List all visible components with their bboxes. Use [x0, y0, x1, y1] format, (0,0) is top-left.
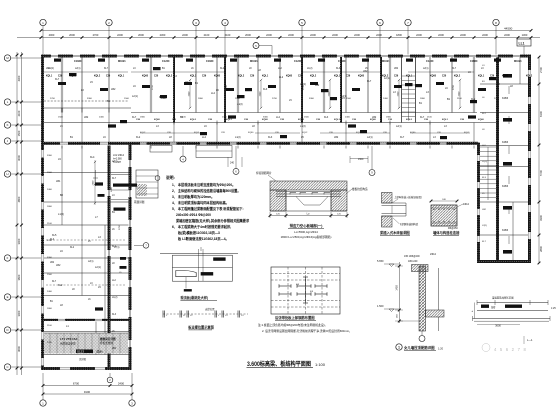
svg-text:1800: 1800: [47, 308, 53, 310]
svg-text:折板式楼梯: 折板式楼梯: [100, 341, 113, 345]
svg-text:KQ60: KQ60: [248, 132, 254, 134]
svg-text:44500: 44500: [504, 27, 513, 31]
svg-text:KQ60: KQ60: [358, 76, 365, 78]
svg-text:KQ60: KQ60: [478, 119, 484, 121]
svg-text:KQ60: KQ60: [70, 76, 77, 78]
svg-text:2400: 2400: [47, 189, 53, 191]
svg-text:2200: 2200: [416, 33, 422, 37]
svg-text:195 1Φ6@200: 195 1Φ6@200: [404, 255, 420, 258]
svg-text:1500: 1500: [47, 274, 53, 276]
svg-text:KQL2: KQL2: [382, 76, 389, 78]
svg-text:4Φ12: 4Φ12: [463, 203, 470, 206]
svg-text:240x300 4Φ14 Φ6@200: 240x300 4Φ14 Φ6@200: [176, 213, 211, 217]
svg-text:1500: 1500: [47, 172, 53, 174]
svg-text:C20: C20: [298, 76, 303, 78]
svg-text:1500: 1500: [58, 117, 64, 119]
svg-text:L2(1): L2(1): [112, 161, 118, 163]
svg-text:3.600标高梁、板结构平面图: 3.600标高梁、板结构平面图: [247, 360, 311, 368]
svg-text:LL2: LL2: [279, 76, 284, 79]
svg-text:2400: 2400: [118, 382, 125, 386]
svg-text:1500: 1500: [304, 117, 310, 119]
svg-text:1:100: 1:100: [315, 362, 326, 367]
svg-text:2700: 2700: [93, 33, 99, 37]
svg-text:KQL1: KQL1: [442, 119, 449, 121]
svg-text:3300: 3300: [309, 98, 315, 100]
svg-text:LB2: LB2: [46, 68, 51, 70]
svg-text:2700: 2700: [539, 67, 543, 73]
svg-text:焊接钢筋网片: 焊接钢筋网片: [256, 171, 272, 175]
svg-text:2200: 2200: [460, 33, 466, 37]
svg-text:5700: 5700: [539, 170, 543, 176]
svg-text:M1021: M1021: [118, 60, 126, 63]
svg-text:KQL1: KQL1: [356, 132, 362, 134]
svg-text:2200: 2200: [354, 33, 360, 37]
svg-text:2100: 2100: [47, 223, 53, 225]
svg-text:KQ60: KQ60: [214, 76, 221, 78]
svg-text:2. 后浇带两侧设钢丝网隔断,砼浇筑前清理干净,浇筑60天后: 2. 后浇带两侧设钢丝网隔断,砼浇筑前清理干净,浇筑60天后封闭600mm。: [262, 329, 352, 333]
svg-text:D: D: [6, 328, 8, 332]
svg-text:C: C: [6, 365, 8, 369]
svg-text:2700: 2700: [50, 98, 56, 100]
svg-text:L1(2): L1(2): [58, 213, 64, 216]
svg-text:3300: 3300: [263, 117, 269, 119]
svg-text:2700: 2700: [453, 84, 455, 90]
svg-text:KQL1: KQL1: [262, 76, 269, 78]
svg-text:6700: 6700: [73, 382, 80, 386]
svg-text:C26: C26: [58, 76, 63, 78]
svg-text:L2(1): L2(1): [423, 68, 429, 70]
svg-text:梁端加密区箍筋(见大样),其余部分参照相关图集要求: 梁端加密区箍筋(见大样),其余部分参照相关图集要求: [175, 218, 250, 223]
svg-text:1、 本层现浇板未注明支座筋均为Φ8@200。: 1、 本层现浇板未注明支座筋均为Φ8@200。: [172, 182, 235, 187]
svg-text:3000: 3000: [17, 310, 21, 316]
svg-text:KQ60: KQ60: [286, 76, 293, 78]
svg-text:2100: 2100: [17, 110, 21, 116]
svg-text:1580: 1580: [111, 186, 113, 192]
svg-text:6、 本工程梁跨大于4m时按规范要求起拱,: 6、 本工程梁跨大于4m时按规范要求起拱,: [172, 224, 231, 229]
svg-text:1:20: 1:20: [438, 347, 444, 351]
svg-text:KL7: KL7: [52, 281, 57, 283]
svg-text:KQL1: KQL1: [46, 76, 53, 78]
svg-text:说明:: 说明:: [166, 175, 175, 180]
svg-text:上部纵筋锚入板端加强(见): 上部纵筋锚入板端加强(见): [394, 195, 422, 199]
svg-text:1:25: 1:25: [551, 307, 556, 310]
svg-text:预应力空心板端部(一): 预应力空心板端部(一): [290, 223, 323, 228]
svg-text:3600: 3600: [17, 346, 21, 352]
svg-text:注:1.板面上部负筋均按Φ8@200布置(未注明者按此设)。: 注:1.板面上部负筋均按Φ8@200布置(未注明者按此设)。: [258, 323, 327, 327]
svg-text:LB2: LB2: [363, 70, 368, 73]
svg-text:4、 未注明梁顶标高均同本层结构标高。: 4、 未注明梁顶标高均同本层结构标高。: [172, 200, 229, 205]
svg-text:H: H: [6, 172, 8, 176]
svg-text:KL2: KL2: [112, 246, 117, 248]
svg-text:KQL2: KQL2: [406, 119, 413, 121]
svg-text:L—1: L—1: [527, 338, 533, 342]
svg-text:3300: 3300: [47, 257, 53, 259]
svg-text:3300: 3300: [539, 215, 543, 221]
svg-text:1800: 1800: [140, 117, 146, 119]
svg-text:KQ60: KQ60: [262, 119, 268, 121]
svg-text:2Φ12: 2Φ12: [430, 253, 437, 256]
svg-text:S123: S123: [77, 350, 84, 354]
svg-text:L2(1): L2(1): [88, 261, 94, 263]
svg-text:2400: 2400: [383, 98, 389, 100]
svg-text:K2B3: K2B3: [502, 185, 509, 188]
svg-text:2200: 2200: [310, 33, 316, 37]
svg-text:3600: 3600: [495, 324, 501, 328]
svg-text:LB2: LB2: [56, 264, 61, 267]
svg-text:2400: 2400: [345, 117, 351, 119]
svg-text:2100: 2100: [427, 117, 433, 119]
svg-text:2400: 2400: [161, 98, 167, 100]
svg-text:板 L1断面做法按11G302,18页—4。: 板 L1断面做法按11G302,18页—4。: [178, 236, 229, 241]
svg-text:LB2: LB2: [111, 88, 116, 91]
svg-text:C1220: C1220: [162, 60, 170, 63]
svg-text:C1820: C1820: [470, 60, 478, 63]
svg-text:KQL1: KQL1: [478, 76, 485, 78]
svg-text:2100: 2100: [457, 98, 463, 100]
svg-text:KQL1: KQL1: [226, 119, 233, 121]
svg-text:1800: 1800: [420, 98, 426, 100]
svg-text:Φ6@250: Φ6@250: [448, 227, 458, 230]
svg-text:L1(2): L1(2): [307, 68, 313, 70]
svg-text:KQ60: KQ60: [154, 119, 160, 121]
svg-text:2200: 2200: [504, 33, 510, 37]
svg-text:M1021: M1021: [514, 60, 522, 63]
svg-text:L1(2): L1(2): [237, 103, 243, 106]
svg-text:KL5: KL5: [52, 234, 57, 237]
svg-text:LB1: LB1: [56, 180, 61, 183]
svg-text:M1021: M1021: [382, 60, 390, 63]
svg-text:Lo=5500,Ag=2Φ14: Lo=5500,Ag=2Φ14: [294, 230, 318, 234]
svg-text:C26: C26: [394, 76, 399, 78]
svg-text:C20: C20: [154, 76, 159, 78]
svg-text:KL2: KL2: [70, 247, 75, 249]
svg-text:2000: 2000: [245, 33, 251, 37]
svg-text:2200: 2200: [182, 33, 188, 37]
svg-text:1800: 1800: [396, 33, 402, 37]
svg-text:C20: C20: [442, 76, 447, 78]
svg-text:6100: 6100: [539, 111, 543, 117]
svg-text:KQ60: KQ60: [370, 119, 376, 121]
svg-text:KL3: KL3: [268, 136, 273, 139]
svg-text:KQ60: KQ60: [430, 76, 437, 78]
svg-text:L1(2): L1(2): [482, 161, 487, 163]
svg-text:KQL1: KQL1: [334, 76, 341, 78]
svg-text:KL7: KL7: [104, 68, 109, 70]
svg-text:C1220: C1220: [426, 60, 434, 63]
svg-text:LT1 2T6.15A: LT1 2T6.15A: [60, 337, 78, 341]
svg-text:1300: 1300: [522, 33, 528, 37]
svg-text:M1021: M1021: [250, 60, 258, 63]
svg-text:KQL1: KQL1: [190, 76, 197, 78]
svg-text:L2(1): L2(1): [75, 68, 81, 70]
svg-text:KL7: KL7: [367, 80, 372, 83]
svg-text:L2(1): L2(1): [482, 225, 487, 227]
svg-text:C26: C26: [346, 76, 351, 78]
svg-text:C1820: C1820: [338, 60, 346, 63]
svg-text:KQL1: KQL1: [334, 119, 341, 121]
svg-text:240: 240: [230, 162, 235, 165]
svg-text:2700: 2700: [272, 98, 278, 100]
svg-text:2100: 2100: [204, 33, 210, 37]
svg-text:KQL1: KQL1: [406, 76, 413, 78]
svg-text:L1(2): L1(2): [235, 136, 241, 139]
svg-text:KL3: KL3: [324, 116, 329, 119]
svg-text:1800: 1800: [386, 117, 392, 119]
svg-text:L1(2): L1(2): [300, 125, 306, 128]
svg-text:KQ60: KQ60: [410, 132, 416, 134]
svg-text:KL7: KL7: [112, 178, 117, 180]
svg-text:5、 本工程雨篷过梁断面配置见下表 卧梁配筋如下:: 5、 本工程雨篷过梁断面配置见下表 卧梁配筋如下:: [172, 206, 244, 211]
svg-text:L2(1): L2(1): [396, 125, 402, 128]
svg-text:下部钢筋锚固构造: 下部钢筋锚固构造: [399, 222, 419, 226]
svg-text:2100: 2100: [181, 117, 187, 119]
svg-text:支撑位置: 支撑位置: [205, 307, 215, 311]
svg-text:1500: 1500: [17, 130, 21, 136]
svg-text:C26: C26: [250, 76, 255, 78]
svg-text:1800<Lo<2500,Ag=2Φ16(Ag指端部钢筋): 1800<Lo<2500,Ag=2Φ16(Ag指端部钢筋): [281, 235, 332, 239]
svg-text:墙体与构造柱连接: 墙体与构造柱连接: [433, 230, 460, 235]
svg-text:KL3: KL3: [263, 88, 268, 91]
svg-text:2100: 2100: [225, 33, 231, 37]
svg-text:2700: 2700: [494, 98, 500, 100]
svg-text:2700: 2700: [381, 84, 383, 90]
svg-text:梁端箍筋加密区范围: 梁端箍筋加密区范围: [492, 296, 514, 300]
svg-text:K2B3: K2B3: [502, 141, 509, 144]
svg-text:KQL2: KQL2: [464, 132, 470, 134]
svg-text:L1(2): L1(2): [112, 297, 118, 299]
svg-text:5.650: 5.650: [377, 259, 384, 263]
svg-text:KL2: KL2: [136, 136, 141, 139]
svg-text:2800: 2800: [539, 246, 543, 252]
svg-text:2700: 2700: [152, 84, 154, 90]
svg-text:2200: 2200: [288, 33, 294, 37]
svg-text:2200: 2200: [332, 33, 338, 37]
svg-text:LB2: LB2: [50, 262, 55, 264]
svg-text:K2B3: K2B3: [502, 229, 509, 232]
svg-text:C26: C26: [106, 76, 111, 78]
svg-text:3000: 3000: [17, 155, 21, 161]
svg-text:2200: 2200: [482, 33, 488, 37]
svg-text:L2(1): L2(1): [132, 95, 138, 98]
svg-text:KQ60: KQ60: [502, 76, 509, 78]
svg-text:1450: 1450: [396, 285, 399, 291]
svg-text:LB2: LB2: [334, 136, 339, 139]
svg-text:KL3: KL3: [112, 314, 117, 316]
svg-text:KQL2: KQL2: [526, 76, 533, 78]
svg-text:楼梯间见详图: 楼梯间见详图: [100, 337, 116, 341]
svg-text:LL1: LL1: [519, 42, 525, 46]
svg-text:1800: 1800: [47, 206, 53, 208]
svg-text:3000: 3000: [17, 238, 21, 244]
svg-text:KQL1: KQL1: [194, 132, 200, 134]
svg-text:2100: 2100: [235, 98, 241, 100]
svg-text:2200: 2200: [438, 33, 444, 37]
svg-text:C26: C26: [202, 76, 207, 78]
svg-text:180×240: 180×240: [408, 260, 418, 263]
svg-text:3300: 3300: [87, 98, 93, 100]
svg-text:雨蓬详图: 雨蓬详图: [134, 200, 145, 204]
svg-text:2700: 2700: [468, 117, 474, 119]
svg-text:E: E: [7, 295, 9, 299]
svg-text:KL2: KL2: [58, 284, 63, 287]
svg-text:(踏步): (踏步): [96, 350, 103, 354]
svg-text:4300: 4300: [17, 75, 21, 81]
svg-text:2200: 2200: [376, 33, 382, 37]
svg-text:KQL2: KQL2: [140, 132, 146, 134]
svg-text:1.500: 1.500: [377, 304, 384, 308]
svg-text:现浇板(悬挑处大样): 现浇板(悬挑处大样): [180, 295, 208, 300]
svg-text:C1820: C1820: [206, 60, 214, 63]
svg-text:台阶做法参见: 台阶做法参见: [60, 342, 76, 346]
svg-text:板支撑位置示意图: 板支撑位置示意图: [188, 325, 214, 330]
svg-text:KQL2: KQL2: [298, 119, 305, 121]
svg-text:3300: 3300: [47, 155, 53, 157]
svg-text:2300: 2300: [160, 33, 166, 37]
svg-text:1500: 1500: [346, 98, 352, 100]
svg-text:KQL1: KQL1: [118, 76, 125, 78]
svg-text:KL7: KL7: [452, 68, 457, 70]
svg-text:4000: 4000: [49, 33, 55, 37]
svg-text:C1820: C1820: [74, 60, 82, 63]
svg-text:9100: 9100: [84, 390, 91, 394]
svg-text:LL2: LL2: [211, 92, 216, 95]
svg-text:LB2: LB2: [84, 116, 89, 119]
svg-text:KQL2: KQL2: [190, 119, 197, 121]
svg-text:KL3: KL3: [100, 194, 105, 197]
svg-text:C26: C26: [490, 76, 495, 78]
svg-text:KL7: KL7: [400, 136, 405, 139]
svg-text:梁插入式木砖留洞图: 梁插入式木砖留洞图: [379, 230, 410, 235]
svg-text:1: 1: [398, 346, 400, 350]
svg-text:2000: 2000: [69, 33, 75, 37]
svg-text:KL2: KL2: [220, 68, 225, 70]
svg-text:KL3: KL3: [336, 68, 341, 70]
svg-text:2700: 2700: [119, 224, 121, 230]
svg-text:2000: 2000: [138, 33, 144, 37]
svg-text:KQL2: KQL2: [310, 76, 317, 78]
svg-text:2、 主体结构与砌体的拉结筋沿墙高每500设置。: 2、 主体结构与砌体的拉结筋沿墙高每500设置。: [172, 188, 241, 193]
svg-text:楼板拉结构造: 楼板拉结构造: [352, 187, 368, 191]
svg-text:LB2: LB2: [112, 348, 117, 350]
svg-text:L2(1): L2(1): [367, 136, 373, 139]
svg-text:2700: 2700: [47, 342, 53, 344]
svg-text:KQL2: KQL2: [166, 76, 173, 78]
svg-text:KQL2: KQL2: [454, 76, 461, 78]
svg-text:LB2: LB2: [394, 68, 399, 70]
svg-text:KQL2: KQL2: [94, 76, 101, 78]
svg-text:KQ60: KQ60: [142, 76, 149, 78]
svg-text:K2B3: K2B3: [502, 97, 509, 100]
svg-text:KQL2: KQL2: [238, 76, 245, 78]
svg-text:F: F: [7, 256, 9, 260]
svg-text:2200: 2200: [117, 33, 123, 37]
svg-text:K: K: [7, 123, 9, 127]
svg-text:1500: 1500: [124, 98, 130, 100]
svg-text:2200: 2200: [266, 33, 272, 37]
svg-text:2700: 2700: [222, 117, 228, 119]
svg-text:KQL2: KQL2: [302, 132, 308, 134]
svg-text:2400: 2400: [99, 117, 105, 119]
svg-text:后浇带处板上部钢筋布置图: 后浇带处板上部钢筋布置图: [274, 315, 315, 320]
svg-text:4800: 4800: [17, 196, 21, 202]
svg-text:L2(1): L2(1): [95, 266, 101, 269]
svg-text:2400: 2400: [47, 291, 53, 293]
svg-text:C1220: C1220: [294, 60, 302, 63]
svg-text:4 5 6 2 7 8: 4 5 6 2 7 8: [494, 347, 527, 352]
svg-text:3、 未注明板厚均为120mm。: 3、 未注明板厚均为120mm。: [172, 194, 214, 199]
svg-text:1800: 1800: [198, 98, 204, 100]
svg-text:2700: 2700: [303, 84, 305, 90]
svg-text:LL2: LL2: [202, 136, 207, 139]
svg-text:3600: 3600: [17, 274, 21, 280]
svg-text:板(梁)模板按11G302,18页—3: 板(梁)模板按11G302,18页—3: [178, 230, 220, 235]
svg-text:KL7: KL7: [55, 78, 60, 81]
svg-text:2100: 2100: [47, 325, 53, 327]
svg-text:KL4: KL4: [90, 156, 95, 159]
svg-text:女儿墙压顶配筋详图: 女儿墙压顶配筋详图: [404, 345, 435, 350]
